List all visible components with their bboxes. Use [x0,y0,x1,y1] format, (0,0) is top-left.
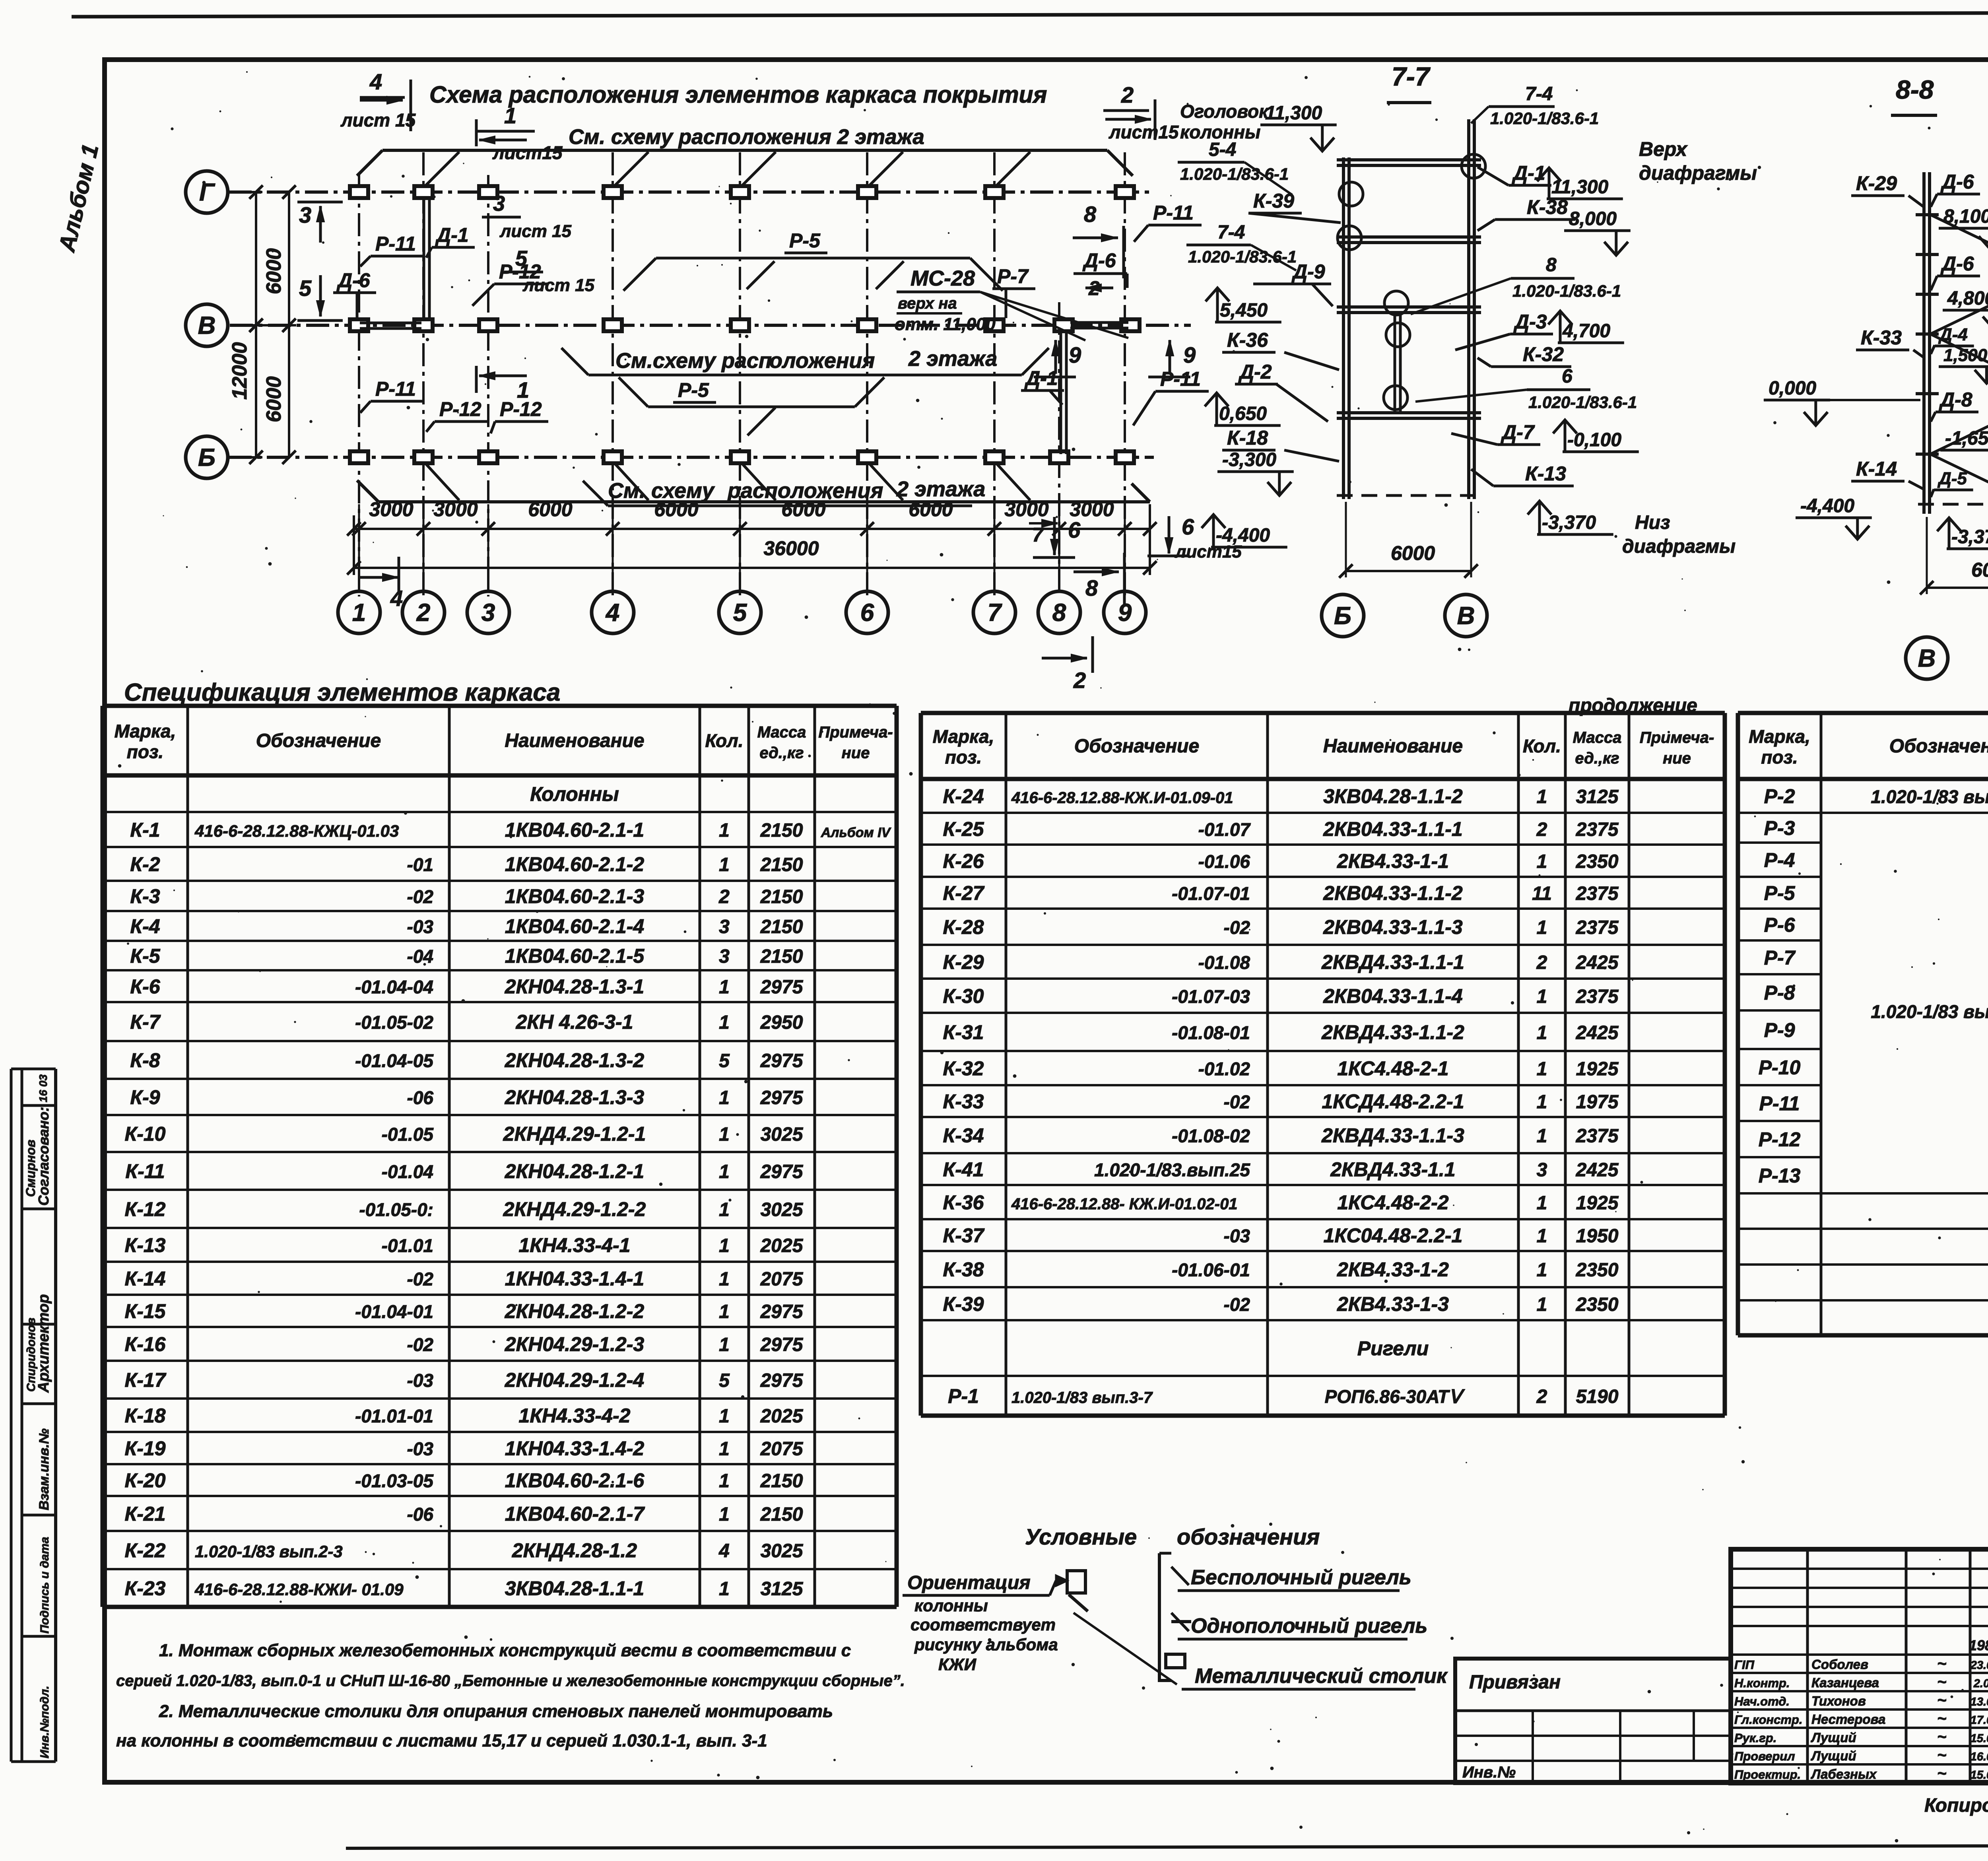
roof outline bottom edge [379,500,1150,503]
svg-text:9: 9 [1118,599,1132,627]
section 8-8 left column plates [1916,213,1939,216]
svg-text:2.04: 2.04 [1973,1677,1988,1690]
svg-text:1: 1 [1537,917,1547,938]
svg-text:К-18: К-18 [124,1404,165,1427]
roof outline diagonal jogs top [423,152,459,188]
svg-text:Взам.инв.№: Взам.инв.№ [37,1428,52,1510]
svg-text:К-19: К-19 [124,1438,165,1460]
svg-text:К-28: К-28 [943,916,984,938]
svg-text:1988: 1988 [1969,1637,1988,1653]
svg-text:6: 6 [860,599,874,627]
svg-text:Б: Б [1334,602,1351,630]
section 7-7 bubble Б [1322,594,1364,637]
svg-text:лист 15: лист 15 [499,221,572,241]
svg-text:Копировал Галева: Копировал Галева [1924,1795,1988,1816]
svg-text:Р-11: Р-11 [1759,1092,1800,1115]
svg-text:2350: 2350 [1576,1260,1619,1281]
svg-text:1.020-1/83.6-1: 1.020-1/83.6-1 [1490,109,1599,128]
orientation symbol [1067,1571,1085,1593]
svg-text:-06: -06 [407,1504,434,1525]
svg-text:1975: 1975 [1576,1092,1619,1113]
svg-text:-01.02: -01.02 [1198,1059,1250,1079]
section arrow 5 down [297,319,343,322]
svg-text:поз.: поз. [945,747,982,767]
svg-text:8,100: 8,100 [1943,206,1988,227]
svg-text:КЖИ: КЖИ [938,1655,977,1674]
svg-text:3025: 3025 [761,1540,804,1562]
svg-text:3: 3 [719,917,730,938]
svg-text:-03: -03 [407,917,434,937]
svg-text:3000: 3000 [369,498,413,521]
svg-text:Оголовок: Оголовок [1180,101,1269,122]
svg-text:Примеча-: Примеча- [818,724,893,741]
svg-text:1КВ04.60-2.1-3: 1КВ04.60-2.1-3 [505,885,645,907]
svg-text:2КН04.28-1.3-1: 2КН04.28-1.3-1 [505,975,644,998]
svg-text:Схема расположения элементов к: Схема расположения элементов каркаса пок… [429,82,1047,108]
svg-text:2350: 2350 [1576,1294,1619,1315]
svg-text:3025: 3025 [761,1124,804,1145]
section mark 4 bottom [360,576,398,579]
svg-text:4,700: 4,700 [1562,321,1610,342]
section 7-7 bottom dashed level [1337,494,1481,497]
svg-text:-02: -02 [407,886,434,907]
svg-text:5190: 5190 [1576,1386,1619,1407]
diaphragm Д-1 on axis 2 [423,199,425,321]
svg-text:1.020-1/83 вып.3-7: 1.020-1/83 вып.3-7 [1871,787,1988,807]
svg-text:2150: 2150 [760,1471,803,1492]
beam Р-5 lower [648,406,855,408]
section 7-7 slab 5.450 [1337,305,1481,309]
svg-text:К-4: К-4 [130,915,160,938]
axis line Г [229,190,1149,194]
svg-text:К-13: К-13 [124,1234,165,1257]
svg-text:16.03: 16.03 [1971,1750,1988,1763]
svg-text:Лущий: Лущий [1811,1748,1856,1763]
svg-text:23.03: 23.03 [1970,1659,1988,1672]
svg-text:1: 1 [719,1302,730,1323]
svg-text:-3,300: -3,300 [1222,449,1276,470]
svg-text:2: 2 [416,599,430,627]
svg-text:-02: -02 [407,1335,434,1355]
svg-text:1КН4.33-4-1: 1КН4.33-4-1 [519,1234,631,1257]
svg-text:ние: ние [1663,750,1691,767]
svg-text:Д-4: Д-4 [1938,325,1968,344]
section 8-8 left column [1922,172,1926,514]
svg-text:8,000: 8,000 [1569,208,1617,229]
bottom dimension line 2 [354,567,1150,569]
svg-text:К-29: К-29 [943,951,984,973]
axis line В [230,324,1191,327]
svg-text:-3,370: -3,370 [1951,526,1988,548]
svg-text:Р-5: Р-5 [678,379,709,401]
svg-text:К-33: К-33 [1861,326,1902,349]
svg-text:ГIП: ГIП [1734,1658,1755,1672]
svg-text:8: 8 [1546,254,1557,276]
svg-text:-01.07-03: -01.07-03 [1172,986,1250,1007]
svg-text:К-6: К-6 [130,975,160,998]
axis bubble Г [186,171,228,213]
svg-text:-01.05-02: -01.05-02 [355,1012,433,1033]
title block left sub-table rows [1731,1568,1988,1570]
svg-text:1: 1 [1537,1059,1547,1080]
svg-text:Н.контр.: Н.контр. [1734,1676,1790,1690]
svg-text:К-32: К-32 [1523,343,1564,365]
svg-text:2КВ4.33-1-3: 2КВ4.33-1-3 [1337,1293,1449,1315]
svg-text:лист 15: лист 15 [340,110,416,130]
svg-text:К-34: К-34 [943,1125,984,1147]
svg-text:2КНД4.29-1.2-2: 2КНД4.29-1.2-2 [503,1198,646,1220]
svg-text:Привязан: Привязан [1469,1672,1561,1693]
svg-text:Проверил: Проверил [1734,1749,1795,1763]
left vertical dimension lines [255,192,257,457]
section 7-7 top slab [1337,158,1481,161]
roof outline diagonal jogs bottom [423,461,459,500]
svg-text:-3,370: -3,370 [1542,512,1596,533]
svg-text:3: 3 [493,192,505,216]
svg-text:-01: -01 [407,855,433,875]
svg-text:1КС04.48-2.2-1: 1КС04.48-2.2-1 [1324,1224,1463,1247]
svg-text:Инв.№подл.: Инв.№подл. [38,1686,51,1758]
annotation line 2 этажа band lower [608,505,972,507]
svg-text:Р-7: Р-7 [997,265,1029,288]
svg-text:К-36: К-36 [1227,329,1268,351]
svg-text:Наименование: Наименование [1323,736,1463,757]
svg-text:1КВ04.60-2.1-1: 1КВ04.60-2.1-1 [505,819,644,841]
svg-text:1925: 1925 [1576,1059,1619,1080]
svg-text:Марка,: Марка, [933,726,994,747]
svg-text:Низ: Низ [1635,512,1670,533]
svg-text:1КН04.33-1.4-1: 1КН04.33-1.4-1 [505,1268,644,1290]
svg-text:2950: 2950 [760,1012,803,1033]
svg-text:2350: 2350 [1576,851,1619,872]
svg-text:9: 9 [1069,342,1081,367]
svg-text:-04: -04 [407,946,433,967]
svg-text:В: В [198,312,216,340]
svg-text:1: 1 [719,1439,730,1460]
svg-text:1. Монтаж сборных железобето: 1. Монтаж сборных железобетонных констру… [159,1641,851,1660]
svg-text:2975: 2975 [760,1370,804,1391]
svg-text:2КН04.29-1.2-3: 2КН04.29-1.2-3 [505,1333,645,1356]
svg-text:1.020-1/83.6-1: 1.020-1/83.6-1 [1512,282,1621,300]
svg-text:колонны: колонны [914,1596,988,1615]
svg-text:1КВ04.60-2.1-5: 1КВ04.60-2.1-5 [505,945,645,967]
svg-text:2975: 2975 [760,1088,804,1109]
section arrow 9 right [1148,376,1190,379]
axis bubbles 1-9 [338,575,1146,633]
section mark 2 bottom [1042,657,1087,660]
svg-text:лист 15: лист 15 [522,276,595,295]
svg-text:7-4: 7-4 [1217,222,1245,243]
svg-text:4: 4 [390,586,403,611]
svg-text:15.03: 15.03 [1971,1732,1988,1745]
svg-text:1: 1 [719,855,730,876]
svg-text:Р-3: Р-3 [1764,817,1795,839]
svg-text:8: 8 [1084,202,1097,227]
svg-text:416-6-28.12.88-КЖИ- 01.09: 416-6-28.12.88-КЖИ- 01.09 [194,1580,404,1599]
svg-text:2КВ04.33-1.1-4: 2КВ04.33-1.1-4 [1323,985,1462,1007]
legend item 1 symbol [1171,1567,1189,1585]
svg-text:Обозначение: Обозначение [1074,736,1199,757]
section 7-7 right column [1467,119,1470,499]
svg-text:поз.: поз. [1761,747,1798,767]
svg-text:верх на: верх на [898,295,957,312]
svg-text:К-13: К-13 [1525,462,1566,485]
svg-text:2975: 2975 [760,1302,804,1323]
svg-text:1: 1 [719,1406,730,1427]
svg-text:1: 1 [719,820,730,841]
svg-text:Альбом 1: Альбом 1 [54,142,104,255]
svg-text:диафрагмы: диафрагмы [1622,536,1736,557]
section arrow 6 right down [1168,516,1171,554]
svg-text:2150: 2150 [760,886,803,907]
svg-text:6000: 6000 [262,376,285,422]
svg-text:Масса: Масса [757,724,806,741]
svg-text:Р-11: Р-11 [375,233,416,255]
legend item 3 symbol [1166,1654,1185,1668]
svg-text:К-8: К-8 [130,1049,160,1072]
svg-text:К-36: К-36 [943,1191,984,1214]
svg-text:8-8: 8-8 [1896,75,1934,104]
svg-text:8: 8 [1085,575,1098,600]
svg-text:1.020-1/83 вып.2-3: 1.020-1/83 вып.2-3 [195,1542,343,1561]
svg-text:Ориентация: Ориентация [907,1572,1031,1593]
svg-text:2КВД4.33-1.1-2: 2КВД4.33-1.1-2 [1321,1021,1464,1043]
svg-text:-02: -02 [1224,917,1250,938]
svg-text:1: 1 [1537,1126,1547,1147]
svg-text:Масса: Масса [1573,729,1622,746]
svg-text:~: ~ [1937,1728,1946,1746]
axis bubble В [186,304,228,346]
svg-text:Обозначение: Обозначение [256,730,381,752]
svg-text:Д-5: Д-5 [1937,469,1967,488]
section 8-8 bracing diagonals [1930,215,1988,274]
svg-text:К-5: К-5 [130,945,160,967]
svg-text:6000: 6000 [528,498,572,521]
columns on axis Г [350,186,1134,198]
svg-text:1: 1 [517,377,529,402]
svg-text:2КВ04.33-1.1-3: 2КВ04.33-1.1-3 [1323,916,1463,938]
svg-text:К-38: К-38 [1527,196,1568,218]
svg-text:К-21: К-21 [124,1503,165,1525]
svg-text:К-18: К-18 [1227,427,1268,449]
svg-text:6: 6 [1182,514,1194,539]
sheet top edge line [72,12,1988,17]
svg-text:1: 1 [719,1269,730,1290]
svg-text:Обозначение: Обозначение [1889,736,1988,757]
svg-text:1950: 1950 [1576,1226,1619,1247]
svg-text:Д-8: Д-8 [1939,389,1972,411]
section mark 1 lower [475,366,478,393]
svg-text:Марка,: Марка, [1749,726,1810,747]
svg-text:416-6-28.12.88- КЖ.И-01.02-01: 416-6-28.12.88- КЖ.И-01.02-01 [1011,1195,1238,1213]
svg-text:3КВ04.28-1.1-1: 3КВ04.28-1.1-1 [505,1577,644,1600]
svg-text:2КН04.28-1.3-2: 2КН04.28-1.3-2 [505,1049,645,1072]
dimension ticks row2 [347,561,361,575]
svg-text:К-24: К-24 [943,785,984,808]
svg-text:Альбом IV: Альбом IV [821,825,892,840]
svg-text:2975: 2975 [760,1051,804,1072]
svg-text:Д-3: Д-3 [1513,311,1547,333]
title block outer box [1731,1549,1988,1783]
svg-text:2075: 2075 [760,1439,804,1460]
svg-text:3КВ04.28-1.1-2: 3КВ04.28-1.1-2 [1323,785,1463,808]
svg-text:К-39: К-39 [1253,190,1294,212]
svg-text:416-6-28.12.88-КЖ.И-01.09-01: 416-6-28.12.88-КЖ.И-01.09-01 [1011,789,1233,807]
svg-text:Р-2: Р-2 [1764,785,1795,808]
svg-text:3: 3 [719,946,730,967]
svg-text:3: 3 [299,202,311,227]
svg-text:4,800: 4,800 [1947,288,1988,309]
svg-text:К-9: К-9 [130,1086,160,1109]
svg-text:Металлический столик: Металлический столик [1195,1665,1448,1688]
svg-text:оложения: оложения [769,349,875,373]
svg-text:Р-6: Р-6 [1764,914,1796,936]
svg-text:К-27: К-27 [943,882,984,904]
svg-text:Д-6: Д-6 [1940,253,1974,275]
svg-text:-01.08-01: -01.08-01 [1172,1022,1250,1043]
svg-text:-01.05-0:: -01.05-0: [359,1199,433,1220]
svg-text:5: 5 [719,1370,730,1391]
roof outline right chamfer [1107,150,1133,176]
svg-text:К-39: К-39 [943,1293,984,1315]
svg-text:1: 1 [719,1199,730,1220]
svg-text:-4,400: -4,400 [1800,495,1854,517]
section 7-7 left column [1342,157,1345,499]
svg-text:2425: 2425 [1576,1022,1619,1043]
svg-text:-02: -02 [407,1269,434,1290]
svg-text:Р-5: Р-5 [789,229,821,252]
svg-text:К-23: К-23 [124,1577,165,1600]
svg-text:-01.08-02: -01.08-02 [1172,1126,1250,1146]
svg-text:К-11: К-11 [125,1160,165,1183]
svg-text:-01.04-01: -01.04-01 [355,1302,433,1322]
section arrow 3 up [297,201,343,204]
section 8-8 bottom dashed [1918,503,1988,506]
svg-text:2КНД4.28-1.2: 2КНД4.28-1.2 [512,1539,637,1562]
axis line Б [229,456,1154,459]
svg-text:1: 1 [1537,1092,1547,1113]
svg-text:К-12: К-12 [124,1198,165,1220]
left stamp column box [10,1069,13,1762]
svg-text:2150: 2150 [760,946,803,967]
svg-text:-01.06: -01.06 [1198,851,1250,872]
svg-text:лист15: лист15 [492,142,563,163]
svg-text:3125: 3125 [1576,787,1619,808]
svg-text:Согласовано:: Согласовано: [35,1107,52,1206]
svg-text:ед.,кг: ед.,кг [759,744,804,762]
roof outline bottom chamfers [357,480,379,502]
svg-text:2075: 2075 [760,1269,804,1290]
svg-text:2КНД4.29-1.2-1: 2КНД4.29-1.2-1 [503,1123,646,1145]
svg-text:2КН04.28-1.2-2: 2КН04.28-1.2-2 [505,1300,645,1323]
svg-text:Марка,: Марка, [115,721,176,742]
svg-text:-06: -06 [407,1088,434,1108]
svg-text:~: ~ [1937,1655,1946,1673]
svg-text:36000: 36000 [763,537,819,559]
svg-text:1КСД4.48-2.2-1: 1КСД4.48-2.2-1 [1322,1090,1464,1113]
svg-text:1КВ04.60-2.1-2: 1КВ04.60-2.1-2 [505,853,645,876]
svg-text:0,650: 0,650 [1219,403,1267,424]
svg-text:1: 1 [1537,1022,1547,1043]
svg-text:9: 9 [1183,342,1196,367]
svg-text:-01.04-04: -01.04-04 [355,977,433,997]
svg-text:1КС4.48-2-1: 1КС4.48-2-1 [1337,1057,1448,1080]
middle specification table [921,711,1725,715]
svg-text:Р-11: Р-11 [1153,202,1194,224]
svg-text:Подпись и дата: Подпись и дата [38,1537,51,1634]
svg-text:1: 1 [719,1471,730,1492]
svg-text:3: 3 [481,599,495,627]
svg-text:4: 4 [605,599,619,627]
svg-text:Р-13: Р-13 [1759,1165,1801,1187]
svg-text:См. схему расположения 2 этаж: См. схему расположения 2 этажа [569,125,924,149]
svg-text:Гл.констр.: Гл.констр. [1734,1713,1802,1727]
svg-text:-03: -03 [1224,1226,1250,1246]
svg-text:К-17: К-17 [124,1369,166,1391]
svg-text:1: 1 [719,1124,730,1145]
svg-text:К-29: К-29 [1856,172,1897,194]
svg-text:2КН04.28-1.3-3: 2КН04.28-1.3-3 [505,1086,645,1109]
svg-text:11,300: 11,300 [1265,103,1322,124]
section 7-7 dimension [1346,570,1471,572]
svg-text:К-22: К-22 [124,1539,165,1562]
svg-text:1КВ04.60-2.1-6: 1КВ04.60-2.1-6 [505,1469,645,1492]
right specification table [1738,711,1988,715]
svg-text:Кол.: Кол. [1523,736,1561,756]
dimension extension verticals [358,504,360,575]
middle table cell texts [943,785,1619,1408]
svg-text:1: 1 [504,103,516,128]
svg-text:Р-10: Р-10 [1759,1057,1801,1079]
svg-text:11: 11 [1532,883,1552,904]
svg-text:Примеча-: Примеча- [1640,729,1714,746]
svg-text:2375: 2375 [1576,917,1619,938]
svg-text:2КН 4.26-3-1: 2КН 4.26-3-1 [516,1011,633,1033]
svg-text:1.020-1/83.6-1: 1.020-1/83.6-1 [1188,247,1297,266]
svg-text:1: 1 [1537,1193,1547,1214]
svg-text:2025: 2025 [760,1406,804,1427]
bottom dimension line 1 [354,528,1150,530]
svg-text:Наименование: Наименование [505,730,644,752]
svg-text:2975: 2975 [760,1335,804,1356]
section arrow 6 left down [1033,556,1075,559]
section arrow 8 bottom [1074,571,1119,573]
svg-text:-03: -03 [407,1370,434,1391]
svg-text:3000: 3000 [1004,498,1048,521]
svg-text:2375: 2375 [1576,986,1619,1007]
svg-text:2375: 2375 [1576,819,1619,840]
svg-text:-01.05: -01.05 [382,1124,434,1145]
svg-text:2. Металлические столики дл: 2. Металлические столики для опирания ст… [159,1702,833,1721]
section 7-7 inner diaphragm [1394,314,1396,412]
svg-text:ние: ние [842,744,870,762]
svg-text:Смирнов: Смирнов [23,1140,38,1197]
svg-text:диафрагмы: диафрагмы [1639,162,1757,184]
svg-text:К-15: К-15 [124,1300,166,1323]
svg-text:4: 4 [369,69,382,94]
svg-text:Лабезных: Лабезных [1811,1767,1877,1781]
svg-text:Д-1: Д-1 [435,224,469,246]
svg-text:1: 1 [719,1504,730,1525]
svg-text:2975: 2975 [760,977,804,998]
svg-text:Р-9: Р-9 [1764,1019,1795,1041]
svg-text:6000: 6000 [1971,559,1988,581]
svg-text:1: 1 [1537,1260,1547,1281]
svg-text:2150: 2150 [760,855,803,876]
svg-text:-01.04: -01.04 [382,1162,433,1182]
svg-text:0,000: 0,000 [1769,378,1816,399]
section mark 7 small [1029,522,1057,524]
